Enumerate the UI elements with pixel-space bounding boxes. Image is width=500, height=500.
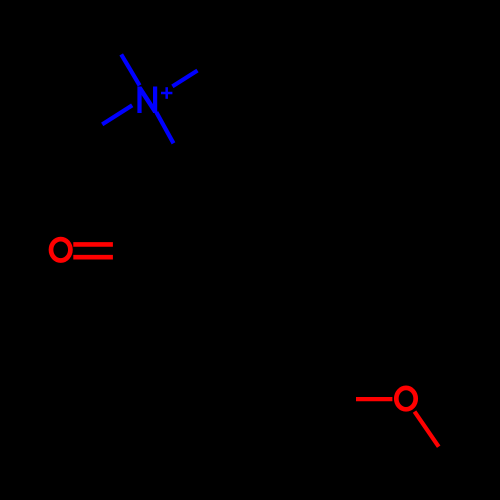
wire C=O1 double bond lower line — [73, 255, 113, 260]
plus sign horizontal bar — [161, 92, 172, 95]
N right stem — [153, 87, 157, 114]
wire bond Caryl-O2 horizontal half — [356, 397, 392, 401]
plus sign vertical bar — [165, 87, 168, 99]
wire bond N1-CH3 left half — [102, 105, 132, 124]
atom O2 methoxy label — [396, 388, 415, 409]
wire bond N1-CH3 upper-left half — [121, 54, 139, 85]
N diagonal — [140, 88, 155, 112]
wire bond N1-CH2 lower-right half — [156, 112, 173, 143]
atom N1 label N+ — [140, 87, 173, 114]
atom O1 carbonyl label — [51, 239, 70, 260]
wire bond N1-CH3 upper-right half — [172, 71, 197, 87]
N left stem — [137, 87, 141, 114]
wire C=O1 double bond upper line — [73, 242, 113, 247]
wire bond O2-CH3 diagonal half — [415, 412, 439, 447]
